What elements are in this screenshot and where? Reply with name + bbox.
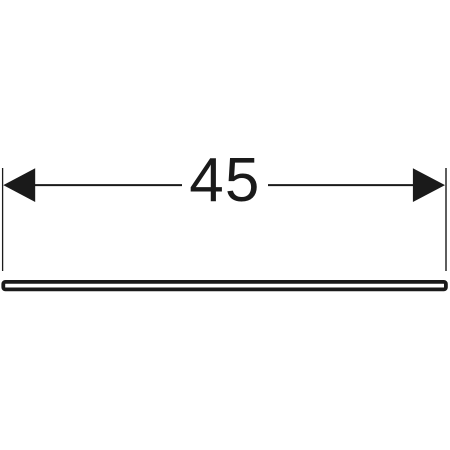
svg-text:4: 4	[189, 146, 223, 215]
dimension line left segment	[30, 184, 182, 186]
arrowhead left	[3, 168, 35, 202]
washbasin countertop profile (side view bar)	[3, 282, 446, 290]
svg-text:5: 5	[225, 146, 259, 215]
dimension line right segment	[268, 184, 418, 186]
extension line left	[2, 168, 4, 271]
extension line right	[445, 168, 447, 271]
arrowhead right	[413, 168, 445, 202]
